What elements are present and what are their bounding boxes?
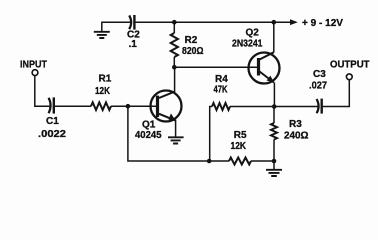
svg-text:820Ω: 820Ω (182, 46, 204, 57)
svg-text:R2: R2 (185, 35, 198, 46)
svg-text:Q2: Q2 (246, 27, 260, 38)
svg-text:240Ω: 240Ω (284, 130, 309, 141)
svg-text:.0022: .0022 (38, 129, 66, 140)
svg-text:R5: R5 (234, 130, 247, 141)
svg-text:.1: .1 (129, 39, 138, 50)
svg-text:C3: C3 (313, 69, 326, 80)
svg-text:R3: R3 (289, 119, 302, 130)
svg-text:Q1: Q1 (142, 120, 156, 131)
svg-text:INPUT: INPUT (20, 59, 47, 70)
svg-text:2N3241: 2N3241 (232, 38, 263, 49)
svg-text:.027: .027 (309, 80, 327, 91)
svg-text:R1: R1 (99, 74, 112, 85)
svg-text:12K: 12K (95, 86, 111, 97)
svg-text:47K: 47K (214, 84, 229, 95)
svg-text:R4: R4 (215, 74, 228, 85)
svg-text:+ 9 - 12V: + 9 - 12V (302, 18, 343, 29)
svg-text:OUTPUT: OUTPUT (330, 59, 370, 70)
svg-text:40245: 40245 (135, 130, 162, 141)
svg-text:12K: 12K (231, 141, 247, 152)
svg-text:C1: C1 (46, 116, 59, 127)
